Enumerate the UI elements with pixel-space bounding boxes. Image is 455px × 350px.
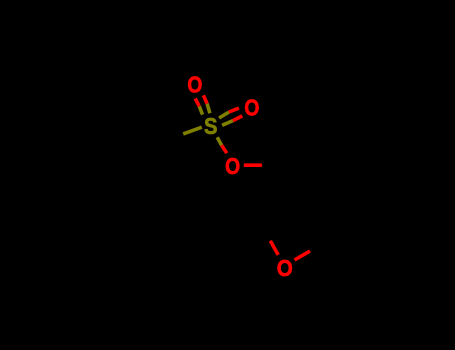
svg-text:S: S bbox=[204, 113, 218, 139]
svg-text:O: O bbox=[244, 95, 259, 121]
half bond O3-CH2 (carbon half invisible) bbox=[244, 163, 262, 167]
svg-text:O: O bbox=[187, 71, 202, 97]
half bond S1-CH3 (methyl, carbon half invisible) bbox=[183, 127, 202, 134]
epoxide half bond O4-C2 (upper left) bbox=[270, 241, 278, 255]
double bond S1=O2 line a (upper), red half bbox=[229, 108, 239, 112]
double bond S1=O2 line a (upper), olive half bbox=[219, 112, 229, 118]
epoxide half bond O4-C3 (upper right) bbox=[295, 251, 311, 260]
double bond S1=O1 line b (right), red half bbox=[203, 95, 207, 103]
double bond S1=O1 line a (left), olive half bbox=[199, 106, 202, 114]
double bond S1=O1 line a (left), red half bbox=[195, 99, 199, 107]
svg-text:O: O bbox=[277, 255, 293, 281]
svg-text:O: O bbox=[225, 153, 240, 179]
double bond S1=O1 line b (right), olive half bbox=[207, 104, 210, 114]
single bond S1-O3, olive half bbox=[217, 137, 221, 145]
single bond S1-O3, red half bbox=[222, 145, 227, 153]
double bond S1=O2 line b (lower), red half bbox=[233, 116, 242, 121]
double bond S1=O2 line b (lower), olive half bbox=[222, 121, 233, 126]
